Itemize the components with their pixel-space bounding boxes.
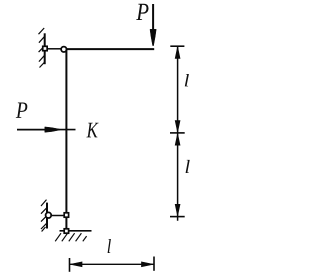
base square at ground <box>64 229 68 233</box>
slider square on column bottom <box>64 213 68 217</box>
dimension line right vertical <box>177 46 179 221</box>
load P top arrow <box>150 4 156 46</box>
hatching top-left wall <box>39 28 45 68</box>
label P top <box>136 4 148 20</box>
label P left <box>16 103 27 118</box>
dim arrow down at bottom <box>175 204 180 215</box>
tick mark K on column <box>58 129 76 131</box>
link bottom support <box>50 215 64 217</box>
dim tick bottom right <box>153 257 155 271</box>
load P left arrow <box>17 127 60 132</box>
dim tick bottom left <box>69 258 71 272</box>
dim arrow down above middle <box>175 121 180 132</box>
beam <box>63 48 154 50</box>
column <box>65 49 67 229</box>
dim arrow right at bottom <box>142 262 154 267</box>
label l right upper <box>185 74 189 86</box>
ground line <box>60 230 92 232</box>
dim arrow up below middle <box>175 134 180 145</box>
wall top-left <box>44 33 46 64</box>
dim tick right middle <box>170 132 185 134</box>
dim tick right bottom <box>170 216 185 218</box>
label l right lower <box>186 160 190 173</box>
hatching ground <box>55 233 86 241</box>
label l bottom <box>108 239 111 253</box>
pin circle top corner <box>61 47 66 52</box>
dim arrow left at bottom <box>70 262 82 267</box>
dimension line bottom horizontal <box>70 263 155 265</box>
hatching bottom-left wall <box>41 200 47 232</box>
dim tick right top <box>170 45 184 47</box>
pin circle bottom wall <box>46 212 52 218</box>
label K <box>86 123 98 138</box>
link top support <box>47 48 62 50</box>
wall bottom-left <box>46 203 48 229</box>
slider square top support <box>43 46 47 50</box>
dim arrow up at top <box>175 47 180 58</box>
